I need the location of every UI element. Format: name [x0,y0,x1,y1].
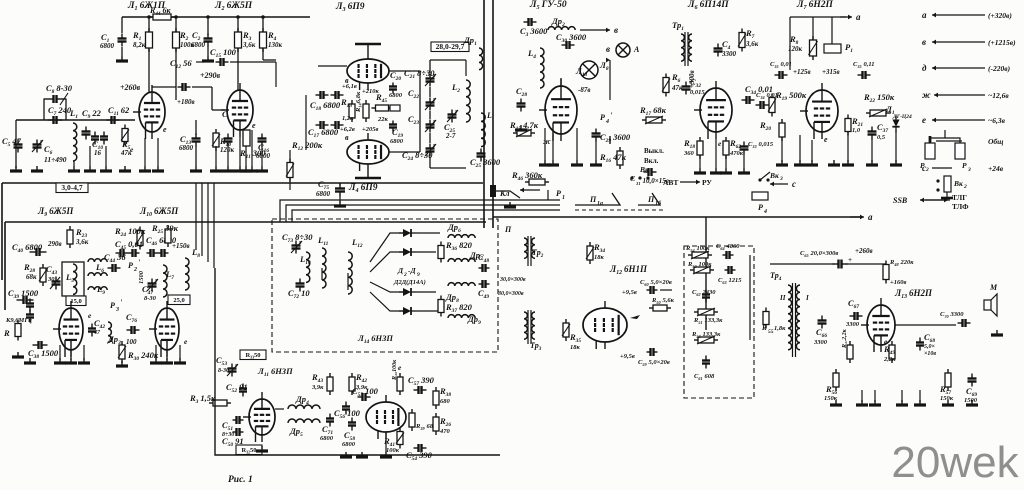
capacitor C60 [640,279,672,294]
svg-text:130к: 130к [268,41,283,49]
svg-text:РУ: РУ [702,178,712,187]
svg-text:R52133,3к: R52133,3к [691,331,721,339]
wire diode out [417,233,440,311]
resistor R3b [189,393,231,406]
junction [147,15,151,19]
ground [256,446,268,451]
label v1 [345,76,349,85]
resistor R45 [372,92,401,123]
capacitor C50 [222,428,244,448]
wire right vertical [705,217,707,330]
capacitor C14 [222,109,253,166]
capacitor C44 [104,252,126,272]
choke Dr1 [463,35,483,70]
ground [539,160,551,165]
resistor R25 [151,223,179,247]
svg-text:I: I [805,294,809,302]
wire filter net [684,255,750,340]
ground [31,166,43,171]
capacitor C41 [26,299,34,323]
capacitor C75 [316,179,345,203]
wire plate T1 [151,85,153,92]
ground [830,400,842,405]
label vykl [644,147,664,165]
svg-text:-87в: -87в [578,86,590,94]
ground [202,56,214,61]
junction [174,15,178,19]
resistor R56 [824,369,839,402]
label +210v [362,88,379,95]
wire 6p9 plate join [389,71,420,152]
svg-text:Рис. 1: Рис. 1 [228,475,253,485]
ground [246,166,258,171]
wire top rail [122,16,310,18]
svg-text:2: 2 [925,167,929,173]
wire R12 top [290,149,306,151]
svg-text:Л66П14П: Л66П14П [687,0,729,11]
ground [65,358,77,363]
legend c [922,163,1004,173]
svg-text:3,6к: 3,6к [242,41,256,49]
ground [942,400,954,405]
capacitor C3a [520,18,548,38]
ground [869,400,881,405]
resistor R50 [649,297,675,311]
svg-text:1а: 1а [597,201,603,207]
label tube L1 [127,1,166,12]
svg-text:+150в: +150в [172,242,190,250]
svg-text:6800: 6800 [100,42,115,50]
svg-text:II: II [779,294,786,302]
svg-text:Л76Н2П: Л76Н2П [796,0,833,11]
label tube L5 [529,0,567,11]
svg-text:П: П [589,195,597,204]
capacitor C63 [718,266,742,285]
svg-text:а: а [868,212,873,222]
wire riser bundle [280,200,560,222]
resistor R22 [863,92,895,117]
svg-text:18к: 18к [570,344,581,351]
label 300v b [497,291,524,297]
svg-text:0,5: 0,5 [877,134,886,141]
ground [515,125,527,130]
vacuum tube L1 6Zh1P [133,85,165,139]
legend a [922,10,1012,20]
label +160v [890,279,906,286]
inductor L8 [185,247,200,290]
label +205v [362,126,378,133]
wire down from tube [837,162,839,217]
ground [84,166,96,171]
svg-text:~6,3в: ~6,3в [988,116,1006,125]
svg-text:8-30: 8-30 [144,295,157,302]
resistor R34 [586,242,605,264]
wire input top [16,119,135,121]
svg-text:18к: 18к [594,254,605,261]
resistor R57 [939,369,954,402]
ground [334,201,346,206]
diode D4 [399,288,417,296]
capacitor C24 trimmer [402,144,436,163]
relay P1 [824,42,853,54]
choke Dr5 [288,419,320,438]
svg-text:1,8к: 1,8к [774,325,786,332]
label e13 [884,337,888,346]
svg-text:2,2к: 2,2к [883,356,896,363]
diode D1 [885,104,912,133]
wire t3 stems [355,44,381,52]
svg-text:е: е [163,125,167,134]
svg-text:е: е [824,135,828,144]
transformer Tr1 [672,20,692,66]
resistor R51 [693,308,723,325]
capacitor C39 [8,288,39,304]
label tube L3 [335,2,365,13]
svg-text:470к: 470к [729,150,744,157]
resistor R3 [235,28,256,52]
label L11 tube [257,366,293,378]
capacitor C59 [638,348,670,367]
svg-text:1500: 1500 [138,270,145,284]
svg-text:2-7: 2-7 [445,132,456,140]
svg-text:3,6к: 3,6к [745,40,759,48]
transformer Tr3 [524,310,542,352]
svg-text:16: 16 [94,149,102,157]
resistor R41 [383,428,404,455]
label +290v [200,71,221,80]
wire L12 net [627,290,680,325]
legend e [922,115,1006,125]
label -87v [578,86,590,94]
resistor R19 [768,90,807,117]
diode D5 [399,307,417,315]
wire bottom-left section top frame [5,222,486,310]
switch P1b [638,193,662,207]
capacitor C65 [800,250,852,269]
box R32 [236,445,262,455]
label R55 [761,324,786,335]
vacuum tube L11 6N3P [243,392,275,442]
label 290v [47,240,62,248]
ground [100,166,112,171]
switch Vk3 [758,171,783,182]
resistor R2 [173,28,195,52]
svg-text:11÷490: 11÷490 [44,155,67,164]
resistor R48 [883,259,914,284]
svg-text:П: П [647,195,655,204]
capacitor C1 [100,17,127,56]
junction [261,15,265,19]
wire audio bottom [385,432,387,452]
svg-text:3300: 3300 [845,321,860,328]
inductor L3 [481,111,492,147]
svg-text:C703300: C703300 [940,311,964,319]
svg-text:+160в: +160в [890,279,906,286]
capacitor C54 [406,444,433,462]
svg-text:ж: ж [543,137,551,146]
svg-text:в: в [606,44,610,54]
inductor L12 [348,237,363,294]
wire bc frame [215,268,500,455]
svg-text:в: в [922,37,926,47]
svg-text:+315в: +315в [822,68,840,76]
svg-text:470: 470 [439,428,451,435]
label e7 [824,135,828,144]
wire R4 down [263,48,276,60]
svg-text:C330,015: C330,015 [748,141,774,149]
capacitor C48 [478,280,490,300]
capacitor C70 [940,311,971,327]
svg-text:6800: 6800 [256,152,271,160]
wire bundle2 [201,183,203,222]
wire T2 gnds [240,130,252,166]
wire tank [430,60,481,168]
capacitor C67 [845,298,863,328]
box R33 [240,350,266,360]
svg-text:Р: Р [600,113,605,122]
wire left grid bus [306,94,314,96]
ground [828,160,840,165]
svg-text:C61608: C61608 [694,373,715,381]
svg-text:ТЛФ: ТЛФ [952,202,969,211]
label Kl [490,185,510,198]
svg-text:Д: Д [397,266,404,275]
wire bl bus [196,222,214,268]
resistor R13 [340,97,355,122]
capacitor C2 [191,17,213,56]
vacuum tube L5 GU-50 [539,79,577,141]
ground [380,452,392,457]
label SSB [893,193,969,211]
svg-text:Л5ГУ-50: Л5ГУ-50 [529,0,567,11]
capacitor C9 [82,108,102,140]
svg-text:28,0-29,7: 28,0-29,7 [436,42,465,51]
resistor R35 [562,319,581,351]
svg-text:+300в: +300в [688,70,696,88]
inductor L4b [527,48,544,88]
vacuum tube L6 6P14P [694,81,732,139]
svg-text:Вк: Вк [769,171,779,180]
ground [139,166,151,171]
capacitor C64 [716,243,740,259]
capacitor C34 [742,84,773,104]
label +315v [822,68,840,76]
capacitor C47 [142,279,158,303]
capacitor C58 [342,418,356,449]
ground [150,358,162,363]
label I [805,294,809,302]
capacitor C8 [44,83,73,120]
capacitor C32 [682,77,706,96]
svg-text:150к: 150к [940,395,954,402]
capacitor C29 [592,129,631,161]
wire diode net [370,233,403,311]
wire L9 pins [60,345,84,360]
ground [210,166,222,171]
svg-text:+125в: +125в [793,68,811,76]
svg-text:R: R [3,328,10,338]
svg-text:Вк: Вк [953,179,963,188]
svg-text:1: 1 [562,195,565,201]
label zh [543,137,551,146]
ground [590,160,602,165]
capacitor C71 [320,414,334,443]
svg-text:ДГ-Ц24: ДГ-Ц24 [892,114,912,120]
svg-text:Л26Ж5П: Л26Ж5П [214,1,253,12]
capacitor C5 [2,136,23,153]
svg-text:68к: 68к [26,273,37,281]
svg-text:C644860: C644860 [716,243,740,251]
wire riser2 [286,205,560,222]
wire b arrow [580,25,618,35]
label AVT RU [663,178,712,187]
switch Vk1 [630,165,653,180]
svg-text:×10в: ×10в [924,351,936,357]
svg-text:Д2Д(Д14А): Д2Д(Д14А) [393,279,426,286]
ground [806,160,818,165]
choke Dr6 [447,222,475,238]
wire gu50 gnds [545,128,577,160]
svg-text:R₄₇2,2к: R₄₇2,2к [842,328,848,349]
resistor R15b [509,120,539,137]
capacitor C10 [91,132,108,158]
svg-text:(+320в): (+320в) [988,11,1012,20]
capacitor C17 [308,121,355,139]
svg-text:R505,6к: R505,6к [651,297,675,305]
capacitor C30 [556,32,587,49]
resistor R21 [845,115,863,136]
svg-text:+180в: +180в [177,98,195,106]
speaker M [984,283,998,316]
resistor R14 [0,0,369,122]
capacitor C61 [694,356,715,382]
label 300v a [499,277,526,283]
resistor R26 [433,413,451,435]
neon lamp L13 [575,60,609,79]
vacuum tube L12 6N1P [583,301,627,349]
capacitor C42 [88,318,105,337]
ground [720,168,732,173]
legend obsh [930,136,1003,146]
label e T1 [163,125,167,134]
ground [340,452,352,457]
capacitor C4 [714,39,737,58]
diode D2 [399,229,417,237]
resistor R44 [149,6,175,20]
svg-text:15,0: 15,0 [70,298,81,305]
svg-text:6800: 6800 [390,138,404,145]
label Ris1 [228,475,253,485]
svg-text:с: с [792,179,796,189]
svg-text:П: П [504,225,512,234]
svg-text:3,6к: 3,6к [75,238,89,246]
switch P1a [575,193,620,207]
junction [206,15,210,19]
choke Dr8 [445,283,475,305]
wire bundle1 [195,183,197,222]
capacitor C26 [470,149,501,170]
vacuum tube L2 6Zh5P [221,83,253,137]
capacitor C20 [389,70,403,99]
label D2-D9 [393,266,426,286]
wire top right drops [790,17,832,70]
resistor R12 [286,140,323,190]
svg-text:R54100к: R54100к [685,245,710,253]
svg-text:100: 100 [126,338,137,346]
svg-text:+205в: +205в [362,126,378,133]
label e11 [398,363,402,372]
svg-text:1,0: 1,0 [852,127,861,134]
svg-text:30,0×300в: 30,0×300в [499,277,526,283]
wire audio net [275,409,366,423]
svg-text:Общ: Общ [988,137,1003,146]
capacitor C15 [210,47,237,66]
label +9.5b [620,353,635,360]
svg-text:3,0-4,7: 3,0-4,7 [61,183,82,192]
ground [119,166,131,171]
ground [694,168,706,173]
vacuum tube L9 6Zh5P [53,301,83,357]
ground [78,358,90,363]
switch Vk2 [936,176,967,198]
inductor L7 [163,265,174,297]
svg-text:55: 55 [768,329,774,335]
svg-text:+260в: +260в [120,83,141,92]
capacitor C68 [916,332,936,357]
wire R3 down [237,48,239,90]
label +300v [688,70,696,88]
wire divider [483,0,485,228]
resistor R30 [118,341,159,363]
inductor L11 [317,235,329,288]
capacitor C36 [853,61,875,79]
svg-text:5,0×: 5,0× [924,344,936,350]
wire C15 [196,62,276,87]
capacitor C11 [107,105,131,124]
junction [236,15,240,19]
vacuum tube L3 6P9 [347,52,389,90]
svg-text:C350,01: C350,01 [770,61,792,69]
svg-text:R48220к: R48220к [889,259,914,267]
svg-text:R53100к: R53100к [687,261,712,269]
svg-text:е: е [252,121,256,130]
resistor R8 [788,34,818,60]
wire cap column [429,60,431,168]
svg-text:2: 2 [963,184,967,190]
wire arrow L12 [630,315,640,319]
wire R1 down [148,48,150,92]
svg-text:а: а [922,10,927,20]
wire T1 gnds [145,138,158,166]
svg-text:в: в [345,76,349,85]
meter A [616,43,640,57]
ground [222,166,234,171]
ground [24,358,36,363]
svg-text:Р: Р [758,203,763,212]
wire L10 pins [156,345,180,360]
svg-text:+24в: +24в [988,164,1004,173]
capacitor C31 [630,168,669,186]
choke Dr7 [448,250,483,262]
wire bundle diag [305,95,307,150]
wire divider2 [492,0,494,228]
svg-text:3: 3 [967,167,971,173]
ground [240,166,252,171]
capacitor C28 [516,86,527,112]
capacitor C51 [222,416,244,438]
svg-text:Р: Р [556,189,561,198]
svg-text:3300: 3300 [721,50,737,58]
